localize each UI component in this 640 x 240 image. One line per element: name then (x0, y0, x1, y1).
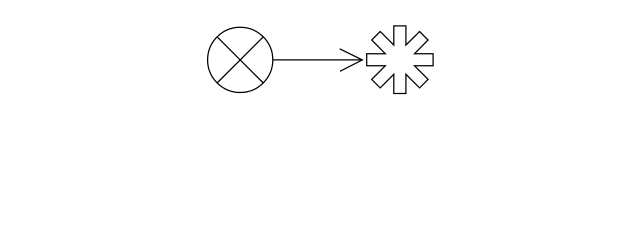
circle outline (208, 27, 273, 92)
crossed-circle symbol (lamp) (208, 27, 273, 92)
wire: arrow shaft from circle to asterisk (273, 59, 362, 61)
open arrowhead (340, 49, 363, 72)
X diagonal line (top-right to bottom-left) (217, 37, 263, 83)
X diagonal line (top-left to bottom-right) (217, 37, 263, 83)
8-point asterisk symbol (367, 26, 433, 94)
